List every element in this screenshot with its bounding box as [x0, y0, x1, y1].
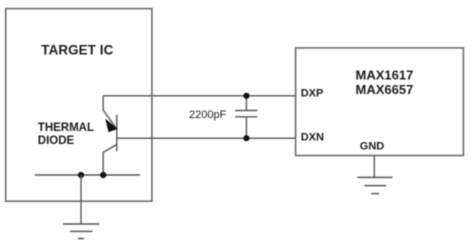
svg-text:DXP: DXP: [301, 87, 324, 99]
svg-text:DXN: DXN: [301, 132, 324, 144]
junction dot (DXN / capacitor): [243, 135, 249, 141]
box TARGET IC: [6, 9, 152, 202]
junction dot (ground stem / rail): [78, 172, 84, 178]
label THERMAL DIODE: [38, 122, 94, 147]
box MAX1617/MAX6657: [296, 48, 464, 156]
wire DXP net (emitter to MAX DXP pin): [103, 95, 295, 97]
wire ground rail inside TARGET IC: [35, 174, 140, 176]
wire ground stem below MAX box: [373, 156, 375, 178]
wire DXN net (base to MAX DXN pin): [117, 137, 296, 139]
junction dot (DXP / capacitor): [243, 93, 249, 99]
svg-text:MAX6657: MAX6657: [356, 82, 414, 97]
svg-text:2200pF: 2200pF: [189, 109, 227, 121]
capacitor C1 2200pF: [235, 96, 257, 138]
base bar: [116, 115, 118, 152]
svg-text:TARGET IC: TARGET IC: [41, 42, 113, 57]
emitter lead with corner: [103, 96, 116, 128]
ground symbol below MAX box: [357, 177, 392, 193]
svg-text:GND: GND: [360, 140, 385, 152]
junction dot (collector / rail): [100, 172, 106, 178]
svg-text:DIODE: DIODE: [38, 135, 75, 147]
svg-text:MAX1617: MAX1617: [356, 67, 414, 82]
svg-text:THERMAL: THERMAL: [38, 122, 94, 134]
collector lead: [103, 144, 117, 175]
transistor Q1 thermal diode (diode-connected PNP): [103, 96, 117, 175]
wire ground stem below TARGET IC: [80, 175, 82, 224]
ground symbol below TARGET IC: [63, 224, 99, 239]
emitter arrowhead of Q1: [106, 120, 117, 132]
